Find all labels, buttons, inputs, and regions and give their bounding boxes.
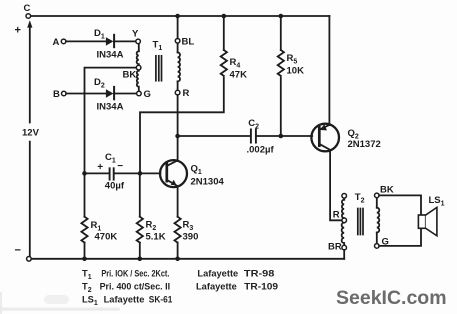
resistor R2 5.1K <box>137 176 143 259</box>
svg-text:BK: BK <box>380 185 394 196</box>
wire: BL up to top rail <box>177 16 179 39</box>
junction at base node <box>138 171 143 176</box>
svg-text:Q1: Q1 <box>191 163 202 176</box>
svg-text:5.1K: 5.1K <box>146 232 166 243</box>
svg-text:R4: R4 <box>230 57 241 70</box>
svg-text:+: + <box>15 25 21 37</box>
svg-text:SeekIC.com: SeekIC.com <box>336 287 447 309</box>
svg-text:G: G <box>144 89 151 100</box>
terminal G <box>137 91 142 96</box>
svg-text:Lafayette: Lafayette <box>197 268 238 278</box>
junction R2/bottom rail <box>138 257 143 262</box>
svg-text:470K: 470K <box>95 232 118 243</box>
wire: top rail corner down to Q2 emitter <box>328 16 330 125</box>
resistor R4 47K <box>221 16 227 76</box>
svg-text:47K: 47K <box>230 70 248 81</box>
svg-text:Lafayette: Lafayette <box>196 282 237 292</box>
junction R3/bottom rail <box>175 257 180 262</box>
speaker LS1 <box>418 207 437 235</box>
svg-text:T1: T1 <box>153 40 163 53</box>
svg-text:+: + <box>97 162 103 173</box>
svg-text:BL: BL <box>182 37 195 48</box>
terminal BR <box>342 245 347 250</box>
svg-text:IN34A: IN34A <box>97 102 124 113</box>
svg-text:40µf: 40µf <box>105 180 125 191</box>
junction at BL/top rail <box>175 14 180 19</box>
transformer T1 secondary winding <box>178 43 180 90</box>
wire: C2 to Q2 base <box>257 135 312 137</box>
svg-text:2N1304: 2N1304 <box>191 176 225 187</box>
wire: BK to speaker <box>379 195 421 215</box>
junction at R4/top rail <box>222 14 227 19</box>
wire: B to D2 <box>66 93 106 95</box>
transformer T1 primary winding <box>137 44 139 92</box>
terminal R (T2 tap) <box>342 218 347 223</box>
svg-text:B: B <box>53 89 60 100</box>
svg-text:390: 390 <box>183 232 199 243</box>
wire: BK tap left and down to C1 node <box>85 68 137 172</box>
svg-text:.002µf: .002µf <box>247 144 275 155</box>
transformer T1 core <box>156 56 162 81</box>
wire: C1 to base node <box>115 172 141 174</box>
wire: A to D1 <box>66 40 106 42</box>
transistor Q1 2N1304 <box>160 160 187 187</box>
svg-text:12V: 12V <box>22 127 40 138</box>
svg-text:C1: C1 <box>105 152 116 165</box>
junction at R5/top rail <box>279 14 284 19</box>
wire: top +12V rail <box>28 15 329 17</box>
transistor Q2 2N1372 <box>311 124 339 152</box>
wire: D1 to Y <box>114 40 136 42</box>
terminal A <box>61 39 66 44</box>
terminal B <box>62 91 67 96</box>
svg-text:D2: D2 <box>94 77 105 90</box>
terminal Y <box>136 39 141 44</box>
svg-text:C2: C2 <box>248 118 259 131</box>
terminal BK (T1 primary center tap) <box>136 65 141 70</box>
terminal BK (T2) <box>375 193 380 198</box>
wire: D2 to G <box>114 93 136 95</box>
diode D2 1N34A <box>106 87 114 99</box>
terminal minus (bottom-left) <box>27 257 32 262</box>
faint scan artifacts bottom-left <box>0 292 120 314</box>
wire: G to speaker <box>379 228 421 246</box>
svg-text:2N1372: 2N1372 <box>348 139 381 150</box>
diode D1 1N34A <box>106 35 114 47</box>
wire: 12V battery line (left vertical) <box>29 24 31 123</box>
svg-text:G: G <box>382 237 389 248</box>
resistor R1 470K <box>81 176 87 259</box>
wire: R4 bottom to base node (bent) <box>140 78 224 172</box>
svg-text:Lafayette: Lafayette <box>104 295 145 305</box>
svg-text:T1: T1 <box>82 268 92 281</box>
svg-text:T2: T2 <box>82 282 92 295</box>
svg-text:LS1: LS1 <box>82 295 98 308</box>
junction R1/bottom rail <box>82 257 87 262</box>
svg-text:R: R <box>333 209 340 220</box>
resistor R3 390 <box>175 217 181 259</box>
svg-text:−: − <box>117 161 123 172</box>
svg-text:Y: Y <box>132 29 139 40</box>
svg-text:SK-61: SK-61 <box>149 295 173 305</box>
wire: node to C1 <box>85 172 109 174</box>
svg-text:R2: R2 <box>146 220 157 233</box>
terminal BL <box>175 39 180 44</box>
junction at collector/C2 wire <box>175 134 180 139</box>
svg-text:R3: R3 <box>183 220 194 233</box>
wire: base node to Q1 base <box>140 172 160 174</box>
terminal R (T1 secondary bottom) <box>175 90 180 95</box>
svg-text:Pri. IOK / Sec. 2Kct.: Pri. IOK / Sec. 2Kct. <box>101 268 169 278</box>
svg-text:TR-98: TR-98 <box>244 268 275 278</box>
svg-text:D1: D1 <box>94 28 105 41</box>
transformer T2 secondary winding <box>377 198 379 244</box>
svg-text:BK: BK <box>123 69 137 80</box>
arrow up on 12V line <box>27 20 32 27</box>
wire: R terminal down to Q1 collector <box>177 95 179 161</box>
svg-text:R5: R5 <box>287 53 298 66</box>
terminal T2 top (open) <box>342 194 347 199</box>
wire: bottom rail <box>29 258 344 260</box>
wire: Q1 emitter down to R3 <box>177 186 179 217</box>
svg-text:10K: 10K <box>287 66 305 77</box>
junction at R5 bottom <box>279 134 284 139</box>
transformer T2 primary winding <box>342 198 345 244</box>
terminal C <box>26 14 31 19</box>
svg-text:IN34A: IN34A <box>97 49 124 60</box>
svg-text:LS1: LS1 <box>429 195 445 208</box>
resistor R5 10K <box>278 16 284 136</box>
wire: Q2 collector down and right to T2 tap R <box>330 150 342 220</box>
wire: coupling line to C2 <box>178 135 250 137</box>
svg-text:BR: BR <box>328 242 342 253</box>
capacitor C1 40uf <box>110 168 114 179</box>
svg-text:R: R <box>183 88 190 99</box>
svg-text:−: − <box>15 245 21 257</box>
svg-text:A: A <box>53 37 60 48</box>
svg-text:TR-109: TR-109 <box>244 282 278 292</box>
svg-text:T2: T2 <box>355 192 365 205</box>
terminal G (T2) <box>375 244 380 249</box>
svg-text:Pri. 400 ct/Sec. II: Pri. 400 ct/Sec. II <box>100 281 171 291</box>
junction at C1 left / BK line / R1 <box>82 171 87 176</box>
wire: BR down to bottom rail <box>343 250 345 259</box>
transformer T2 core <box>358 209 363 235</box>
notes text block <box>82 268 278 307</box>
capacitor C2 .002uf <box>251 129 256 142</box>
svg-text:C: C <box>24 3 31 14</box>
